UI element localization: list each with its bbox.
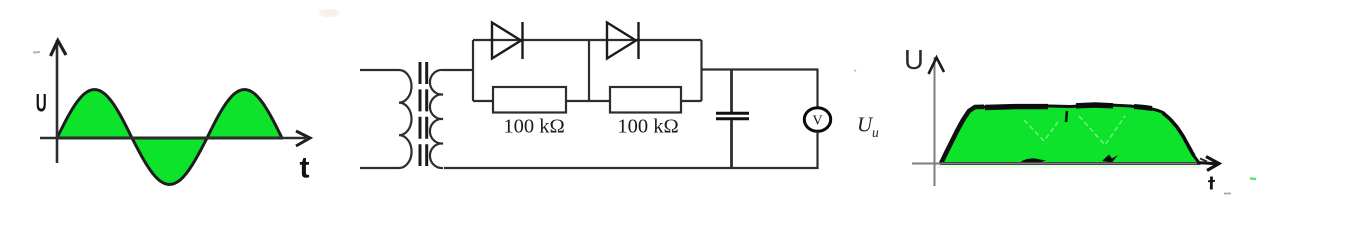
label Uu output voltage [857, 113, 879, 141]
voltmeter M1 [804, 108, 830, 132]
wire capacitor top [730, 70, 733, 113]
label t right graph [1208, 177, 1215, 190]
wire bottom rail [444, 167, 819, 169]
svg-text:u: u [872, 125, 879, 140]
wire primary top lead [360, 69, 399, 71]
transformer secondary coil L2 [430, 70, 443, 168]
faint smudge [319, 9, 339, 17]
vertical axis [934, 57, 936, 186]
wire resistor branch 2 [589, 100, 610, 102]
output hump green fill [941, 105, 1200, 164]
stray gray dash [33, 51, 40, 54]
left graph: input sine wave [33, 9, 339, 185]
wire voltmeter bottom [816, 132, 818, 169]
diode D1 [492, 22, 523, 59]
node bar mid between sections [588, 40, 590, 101]
light ripple scratch 2 [1079, 116, 1125, 145]
diode D2 [607, 22, 639, 59]
transformer primary coil L1 [399, 70, 412, 168]
svg-text:100 kΩ: 100 kΩ [503, 116, 564, 138]
transformer core [420, 62, 427, 166]
node bar right of section 2 [700, 40, 702, 101]
wire diode branch 1 [473, 39, 589, 41]
thick top bar 2 [1076, 102, 1113, 108]
wire voltmeter top [816, 70, 818, 109]
thick top bar 1 [985, 104, 1048, 110]
horizontal axis [912, 163, 1207, 165]
svg-text:V: V [812, 114, 822, 129]
thick descent stroke [1163, 113, 1194, 156]
axis mark blob 1 [1021, 158, 1046, 163]
vertical axis U [56, 40, 59, 163]
svg-text:t: t [300, 152, 310, 185]
wire output top rail [702, 68, 819, 70]
horizontal axis arrowhead scribble [1206, 157, 1219, 171]
vertical axis arrowhead [929, 58, 945, 75]
axis arrowhead top [51, 41, 67, 57]
resistor R1 [493, 87, 566, 113]
svg-text:100 kΩ: 100 kΩ [617, 116, 678, 138]
sine wave green fill [57, 90, 282, 185]
wire diode branch 2 [589, 39, 702, 41]
capacitor C1 plates [716, 113, 749, 119]
wire capacitor bottom [730, 120, 733, 168]
light ripple scratch 1 [1024, 119, 1060, 141]
svg-text:U: U [904, 44, 924, 75]
wire resistor branch 1 [473, 100, 493, 102]
small tick below outline [1066, 111, 1067, 122]
stray gray dash right [1224, 193, 1231, 195]
svg-text:U: U [36, 90, 47, 118]
pale strip under axis [938, 165, 1200, 168]
wire secondary top to network [443, 69, 473, 71]
wire primary bottom lead [360, 167, 399, 169]
axis arrowhead right [296, 131, 310, 146]
horizontal axis t [40, 137, 306, 140]
right graph: output voltage [855, 44, 1257, 194]
axis mark blob 2 [1102, 155, 1118, 163]
stray green dot [1250, 177, 1256, 180]
node bar left of section 1 [472, 40, 474, 101]
middle circuit [360, 22, 879, 168]
thick left edge stroke [941, 107, 984, 164]
stray gray dot mid [855, 70, 857, 72]
thick top bar 3 [1134, 107, 1152, 109]
resistor R2 [610, 87, 681, 113]
